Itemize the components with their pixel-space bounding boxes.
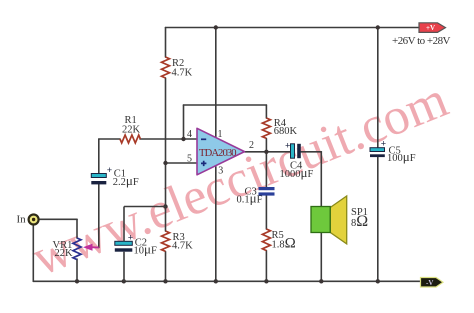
capacitor C4	[285, 142, 301, 159]
wire C2 top lead	[123, 207, 125, 242]
wire C2 bottom lead	[123, 252, 125, 282]
node ground C2	[122, 279, 126, 283]
svg-text:2: 2	[249, 140, 254, 151]
resistor R5	[262, 229, 270, 251]
wire pin 1 riser to +V rail	[215, 28, 217, 138]
node ground pin3	[214, 279, 218, 283]
wire R4 bottom lead to output node	[265, 139, 267, 152]
wire C2 branch node down to R3	[165, 207, 167, 232]
wire feedback top	[184, 104, 267, 106]
svg-text:-V: -V	[426, 279, 433, 287]
wire input jack to VR1	[39, 218, 77, 220]
svg-text:+: +	[107, 166, 112, 176]
op-amp U1 TDA2030	[197, 128, 245, 175]
wire output node to C3	[265, 152, 267, 187]
node ground speaker	[319, 279, 323, 283]
svg-text:1: 1	[218, 129, 223, 140]
wire bottom -V rail	[33, 280, 420, 282]
wire R4 top lead	[265, 105, 267, 118]
svg-text:4.7K: 4.7K	[172, 241, 193, 252]
wire C4 to speaker corner	[301, 151, 321, 153]
node C2 branch junction	[163, 204, 167, 208]
wire C5 column top	[377, 28, 379, 148]
node pin5 bias junction	[163, 161, 167, 165]
svg-text:In: In	[17, 213, 27, 225]
svg-text:22K: 22K	[122, 124, 141, 135]
node ground R3	[163, 279, 167, 283]
node ground VR1	[75, 279, 79, 283]
wire VR1 bottom lead	[76, 259, 78, 281]
wire C1 bottom lead to VR1 wiper	[98, 185, 100, 248]
node output junction	[264, 150, 268, 154]
wire R1 left segment	[99, 138, 120, 140]
capacitor C3	[259, 187, 275, 196]
wire speaker column	[320, 152, 322, 281]
node top rail C5 junction	[376, 25, 380, 29]
svg-text:+: +	[128, 234, 133, 244]
wire input jack column	[32, 225, 34, 281]
wire R5 to ground rail	[265, 251, 267, 282]
resistor R1	[120, 135, 140, 143]
resistor R3	[162, 231, 170, 251]
wire C1 top lead	[98, 139, 100, 174]
svg-text:+: +	[285, 142, 290, 152]
svg-text:4: 4	[187, 129, 192, 140]
potentiometer VR1	[73, 238, 99, 260]
wire top +V rail	[166, 27, 420, 29]
capacitor C5	[370, 140, 386, 158]
capacitor C1	[91, 166, 112, 184]
svg-text:22K: 22K	[55, 248, 74, 259]
wire C3 to R5	[265, 196, 267, 230]
watermark www.eleccircuit.com	[24, 71, 455, 287]
input jack In	[29, 215, 39, 225]
node feedback pin4 junction	[181, 137, 185, 141]
svg-text:+: +	[381, 140, 386, 150]
svg-text:+26V to +28V: +26V to +28V	[392, 35, 451, 47]
svg-text:TDA2030: TDA2030	[199, 148, 237, 159]
svg-text:4.7K: 4.7K	[172, 67, 193, 78]
svg-text:3: 3	[218, 166, 223, 177]
power -V symbol	[421, 278, 444, 288]
node ground C5	[376, 279, 380, 283]
power +V symbol	[419, 23, 446, 33]
wire output to C4	[245, 151, 291, 153]
node top rail pin1 junction	[214, 25, 218, 29]
wire feedback riser	[183, 105, 185, 139]
wire C5 column bottom	[377, 157, 379, 282]
wire R3 bottom to ground rail	[165, 252, 167, 282]
resistor R4	[262, 118, 270, 138]
node ground R5	[264, 279, 268, 283]
wire pin 3 riser down	[215, 167, 217, 282]
wire pin 5 input	[166, 162, 198, 164]
svg-text:+V: +V	[426, 24, 435, 32]
svg-text:680K: 680K	[274, 126, 298, 137]
wire R2 bottom to pin5 node	[165, 78, 167, 163]
wire VR1 top lead	[76, 219, 78, 238]
wire R1 to pin 4	[140, 138, 197, 140]
wire pin5 node down to C2 branch node	[165, 163, 167, 207]
speaker SP1	[311, 196, 347, 244]
resistor R2	[162, 57, 170, 78]
wire R2 top lead from +V rail	[165, 28, 167, 58]
svg-text:5: 5	[187, 154, 192, 165]
wire C2 branch horizontal	[124, 207, 166, 282]
capacitor C2	[115, 234, 133, 252]
